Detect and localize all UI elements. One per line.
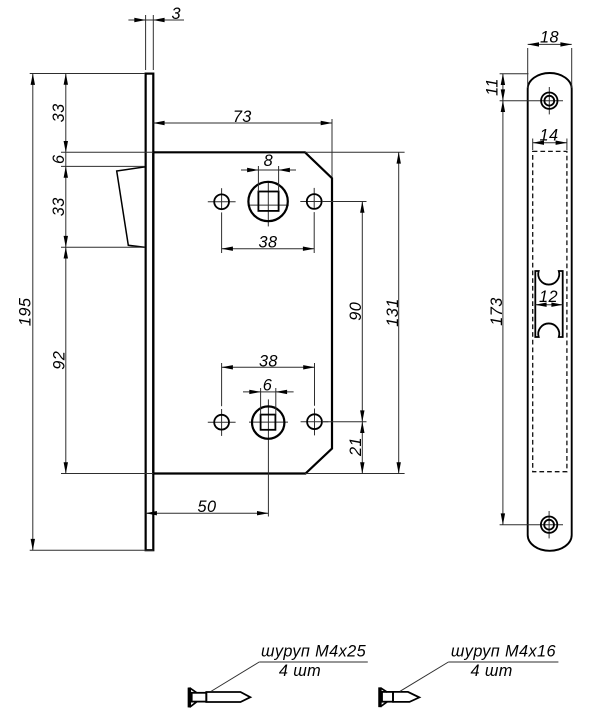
svg-text:21: 21 (347, 437, 365, 457)
dimension 38 top hole spacing (222, 212, 315, 253)
screw M4x25 head (189, 688, 191, 706)
svg-text:шуруп М4х16: шуруп М4х16 (451, 642, 557, 660)
svg-text:33: 33 (50, 103, 68, 122)
dimension 6 latch offset (61, 152, 153, 166)
svg-text:18: 18 (540, 29, 559, 47)
dimension 50 spindle offset (146, 512, 269, 514)
svg-text:131: 131 (384, 298, 402, 326)
svg-text:90: 90 (347, 302, 365, 321)
screw M4x16 body and tip (393, 692, 419, 702)
leader screw M4x25 (211, 662, 368, 692)
svg-text:14: 14 (540, 126, 559, 144)
screw M4x25 neck (192, 693, 207, 702)
svg-text:73: 73 (233, 108, 252, 126)
dimension 92 lower section (61, 247, 153, 473)
latch bolt (117, 167, 146, 248)
svg-text:6: 6 (50, 154, 68, 164)
dimension 21 bottom offset (361, 422, 363, 474)
dimension 33 upper (65, 74, 67, 153)
screw M4x16 head (379, 688, 381, 706)
dashed mortise outline (533, 151, 567, 471)
screw hole bottom (541, 517, 557, 533)
screw M4x25 body and tip (206, 692, 250, 702)
screw hole top (541, 93, 557, 109)
dimension 195 faceplate length (30, 74, 154, 551)
svg-text:4 шт: 4 шт (470, 662, 512, 680)
dimension 8 square hole top (241, 166, 296, 192)
dimension 131 body height (305, 152, 405, 473)
screw M4x16 neck (382, 692, 393, 702)
svg-text:11: 11 (484, 78, 502, 96)
dimension 14 mortise width (533, 139, 567, 151)
dimension 33 latch height (61, 166, 145, 247)
dimension 90 hole pitch (322, 202, 367, 422)
dimension 11 top hole offset (500, 74, 529, 101)
spindle hole top (248, 182, 287, 221)
dimension 173 hole pitch plate (502, 101, 504, 525)
svg-text:195: 195 (17, 297, 35, 326)
dimension 18 plate width (528, 44, 572, 88)
svg-text:12: 12 (539, 288, 558, 306)
svg-text:6: 6 (263, 377, 273, 395)
lock body outline (153, 152, 332, 473)
dimension 3 faceplate thickness (128, 15, 184, 70)
svg-text:173: 173 (488, 297, 506, 325)
latch cutout (535, 271, 562, 337)
faceplate front view (146, 74, 154, 551)
svg-text:38: 38 (259, 233, 278, 251)
hole left top (214, 194, 229, 209)
svg-text:8: 8 (264, 152, 273, 170)
hole right bottom (307, 414, 322, 429)
screw hole top centerlines (500, 87, 563, 114)
svg-text:38: 38 (259, 352, 278, 370)
dimension 12 latch cutout width (535, 304, 562, 306)
screw hole bottom centerlines (500, 511, 563, 538)
strike plate side view (528, 73, 572, 551)
square hole top 8mm (258, 192, 278, 211)
spindle hole bottom (252, 406, 284, 438)
svg-text:4 шт: 4 шт (279, 662, 321, 680)
svg-text:шуруп М4х25: шуруп М4х25 (261, 642, 367, 660)
leader screw M4x16 (400, 662, 558, 691)
square hole bottom 6mm (261, 415, 276, 430)
svg-text:3: 3 (171, 5, 180, 23)
hole left bottom (214, 415, 229, 430)
svg-text:92: 92 (50, 351, 68, 370)
dimension 73 body width (153, 119, 332, 177)
dimension 6 square hole bottom (243, 388, 294, 415)
dimension 38 bottom hole spacing (222, 363, 315, 406)
svg-text:50: 50 (198, 498, 217, 516)
node bottom hole group centerlines (208, 399, 329, 516)
node top hole group centerlines (208, 181, 328, 226)
svg-text:33: 33 (50, 197, 68, 216)
hole right top (307, 194, 322, 209)
